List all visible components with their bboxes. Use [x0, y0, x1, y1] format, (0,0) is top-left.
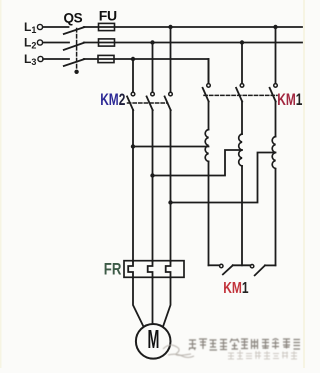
wire KM2 pole1 upper	[132, 59, 134, 92]
relay FR heater 3	[166, 262, 171, 278]
watermark text line1	[189, 339, 300, 351]
node junction L1/KM2 pole3	[168, 25, 172, 29]
relay FR heater 1	[128, 262, 133, 278]
svg-text:KM2: KM2	[100, 91, 125, 110]
motor M1 circle	[136, 324, 171, 359]
wire FR to motor U	[133, 278, 144, 328]
wire star bus left	[209, 264, 220, 266]
wire KM1 pole2 upper	[241, 43, 243, 84]
wire L3 to QS	[43, 58, 69, 60]
wire KM2 pole1 lower	[132, 110, 134, 262]
fuse FU3	[98, 55, 114, 62]
contactor KM1 pole1 contact	[203, 84, 211, 102]
svg-text:M: M	[148, 326, 160, 354]
svg-text:FR: FR	[104, 260, 122, 279]
contactor KM1 star contact 2	[250, 265, 265, 276]
wire L1 row	[84, 26, 302, 28]
wire L2 to QS	[43, 42, 69, 44]
wire KM2 pole3 upper	[170, 27, 172, 92]
svg-text:FU: FU	[99, 8, 117, 24]
node junction L1/KM1 pole3	[273, 25, 277, 29]
autotransformer coil T3	[272, 137, 275, 169]
contactor KM1 linkage dashed	[204, 94, 277, 96]
wire star bus middle	[233, 264, 251, 266]
wire KM2 pole3 lower	[170, 110, 172, 262]
wire KM1 pole3 to coil T3	[275, 102, 277, 137]
switch QS blade pole3	[64, 59, 84, 66]
node tap T1 junction	[131, 144, 135, 148]
watermark scribble	[163, 345, 194, 358]
switch QS blade pole2	[64, 43, 84, 50]
right edge tint	[303, 0, 305, 368]
autotransformer coil T1	[205, 130, 208, 162]
svg-text:KM1: KM1	[277, 91, 302, 110]
contactor KM2 pole3 contact	[165, 92, 173, 110]
node junction L2/KM1 pole2	[240, 40, 244, 44]
node L3 terminal	[38, 56, 43, 61]
wire KM1 pole1 upper	[208, 59, 210, 84]
left edge tint	[0, 0, 2, 368]
node tap T2 junction	[150, 173, 154, 177]
contactor KM2 pole1 contact	[127, 92, 135, 110]
fuse FU2	[99, 39, 115, 46]
wire KM2 pole2 lower	[152, 110, 154, 262]
wire L2 row	[84, 42, 302, 44]
wire tap T2	[153, 150, 243, 176]
wire KM2 pole2 upper	[152, 43, 154, 93]
relay FR heater 2	[148, 262, 153, 278]
wire KM1 pole2 to coil T2	[241, 102, 243, 135]
node L1 terminal	[37, 24, 42, 29]
wire FR to motor W	[163, 278, 171, 328]
wire L1 to QS	[43, 26, 69, 28]
contactor KM2 pole2 contact	[147, 92, 155, 110]
fuse FU1	[99, 23, 115, 30]
wire tap T3	[171, 153, 276, 203]
wire star bus right	[265, 264, 276, 266]
wire coil T2 bottom	[241, 166, 243, 265]
watermark text line2	[228, 350, 297, 359]
node junction L2/KM2 pole2	[150, 40, 154, 44]
svg-text:QS: QS	[64, 11, 83, 26]
relay FR box	[124, 261, 184, 278]
node L2 terminal	[37, 40, 42, 45]
switch QS linkage dashed	[76, 29, 78, 70]
contactor KM1 pole2 contact	[236, 84, 244, 102]
switch QS handle mark	[74, 70, 78, 74]
wire KM1 pole1 to coil T1	[208, 102, 210, 130]
node junction L3/KM2 pole1	[131, 57, 135, 61]
wire tap T1	[133, 146, 209, 148]
contactor KM1 pole3 contact	[270, 84, 278, 102]
switch QS blade pole1	[64, 27, 84, 34]
contactor KM1 star contact 1	[220, 264, 233, 274]
autotransformer coil T2	[239, 134, 242, 166]
wire coil T1 bottom	[208, 162, 210, 266]
wire coil T3 bottom	[275, 169, 277, 265]
wire L3 row	[84, 59, 209, 84]
svg-text:KM1: KM1	[223, 278, 248, 296]
node tap T3 junction	[168, 200, 172, 204]
wire KM1 pole3 upper	[275, 27, 277, 84]
wire FR to motor V	[152, 278, 154, 325]
contactor KM2 linkage dashed	[128, 102, 168, 104]
